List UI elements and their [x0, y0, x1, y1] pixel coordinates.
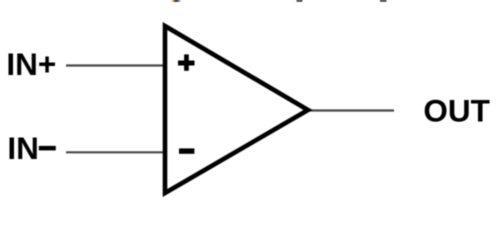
svg-text:IN: IN: [7, 130, 39, 166]
wire IN- to op-amp: [66, 151, 165, 153]
op-amp non-inverting input symbol +: [178, 54, 195, 70]
op-amp U1 triangle: [165, 26, 308, 193]
clipped text remnant 3 (top edge): [380, 0, 387, 2]
svg-text:IN+: IN+: [6, 46, 56, 82]
wire IN+ to op-amp: [66, 64, 165, 66]
svg-text:OUT: OUT: [423, 93, 490, 129]
clipped text remnant 2 (top edge): [297, 0, 303, 2]
wire op-amp output: [308, 109, 394, 111]
label IN- dash: [39, 146, 56, 151]
op-amp inverting input symbol -: [179, 148, 194, 153]
clipped text remnant 1 (top edge): [172, 0, 175, 2]
